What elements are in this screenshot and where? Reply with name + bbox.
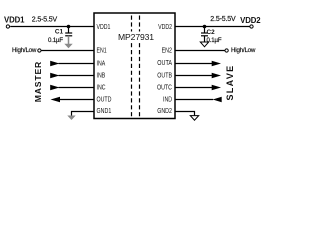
svg-text:2.5-5.5V: 2.5-5.5V <box>210 16 236 23</box>
IND input arrow <box>213 97 222 103</box>
svg-text:C2: C2 <box>207 29 216 36</box>
wire OUTD <box>60 99 95 101</box>
ground arrow under C1 <box>64 36 72 49</box>
EN2 terminal <box>225 49 228 52</box>
wire IND <box>175 99 213 101</box>
junction node C1/VDD1 <box>67 25 71 29</box>
svg-text:SLAVE: SLAVE <box>225 64 235 100</box>
svg-text:VDD2: VDD2 <box>240 16 261 25</box>
wire EN1 <box>41 50 94 52</box>
wire VDD1 to pin <box>10 26 94 28</box>
INB input arrow <box>50 73 59 79</box>
wire VDD2 to pin <box>175 26 250 28</box>
capacitor C1 <box>65 27 72 36</box>
OUTC output arrow <box>212 85 221 91</box>
svg-text:GND2: GND2 <box>157 106 172 115</box>
IC U1 MP27931 body <box>94 13 175 119</box>
INC input arrow <box>50 85 59 91</box>
ground triangle GND2 <box>190 116 198 121</box>
wire INB <box>59 75 95 77</box>
EN1 terminal <box>38 49 41 52</box>
svg-text:VDD1: VDD1 <box>4 15 25 24</box>
wire INA <box>59 63 95 65</box>
junction node C2/VDD2 <box>203 25 207 29</box>
VDD1 terminal <box>6 25 9 28</box>
OUTB output arrow <box>212 73 221 79</box>
svg-text:OUTC: OUTC <box>157 83 172 92</box>
wire INC <box>59 87 95 89</box>
isolation barrier dashed line left <box>131 16 133 117</box>
svg-text:OUTB: OUTB <box>157 70 172 79</box>
svg-text:EN1: EN1 <box>97 46 107 55</box>
svg-text:MASTER: MASTER <box>33 61 43 102</box>
svg-text:OUTA: OUTA <box>157 58 172 67</box>
svg-text:MP27931: MP27931 <box>118 32 154 42</box>
ground arrow GND1 <box>67 116 75 121</box>
svg-text:High/Low: High/Low <box>231 47 256 54</box>
VDD2 terminal <box>250 25 253 28</box>
isolation barrier dashed line right <box>139 16 141 117</box>
svg-text:High/Low: High/Low <box>12 47 37 54</box>
wire OUTC <box>175 87 212 89</box>
svg-text:INA: INA <box>97 59 106 68</box>
wire GND2 <box>175 112 195 116</box>
svg-text:EN2: EN2 <box>162 46 172 55</box>
svg-text:INB: INB <box>97 71 106 80</box>
OUTA output arrow <box>212 61 221 67</box>
svg-text:0.1µF: 0.1µF <box>48 37 63 44</box>
svg-text:VDD2: VDD2 <box>158 22 172 31</box>
ground triangle under C2 <box>200 42 208 47</box>
svg-text:IND: IND <box>163 95 172 104</box>
wire OUTB <box>175 75 212 77</box>
wire GND1 <box>72 112 95 116</box>
U1 part number label MP27931 <box>116 32 157 43</box>
wire OUTA <box>175 63 212 65</box>
svg-text:2.5-5.5V: 2.5-5.5V <box>32 16 58 23</box>
capacitor C2 <box>201 27 208 42</box>
svg-text:OUTD: OUTD <box>97 95 112 104</box>
INA input arrow <box>50 61 59 67</box>
svg-text:0.1µF: 0.1µF <box>207 37 222 44</box>
svg-text:C1: C1 <box>55 29 64 36</box>
wire EN2 <box>175 50 225 52</box>
svg-text:INC: INC <box>97 83 106 92</box>
svg-text:VDD1: VDD1 <box>97 22 111 31</box>
OUTD output arrow <box>51 97 61 103</box>
svg-text:GND1: GND1 <box>97 106 112 115</box>
